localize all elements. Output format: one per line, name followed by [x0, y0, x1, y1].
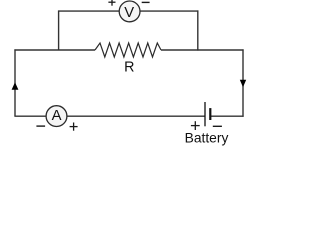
battery B1 negative plate (short thick) [209, 108, 211, 120]
voltmeter V1 circle [119, 1, 140, 22]
svg-text:V: V [124, 5, 134, 21]
ammeter plus polarity mark [70, 123, 78, 131]
resistor R zigzag [95, 43, 161, 57]
current direction arrow up (left side) [12, 82, 19, 90]
ammeter A1 circle [46, 106, 67, 127]
wire resistor row left segment [14, 49, 95, 51]
wire top-left horizontal (voltmeter branch) [59, 10, 120, 12]
svg-text:Battery: Battery [185, 130, 229, 145]
wire left outer vertical [14, 49, 16, 116]
voltmeter plus polarity mark [108, 0, 115, 6]
wire bottom-left segment [14, 115, 46, 117]
wire bottom-middle segment (ammeter to battery) [67, 115, 205, 117]
battery plus polarity mark [191, 121, 200, 130]
wire voltmeter branch left vertical [58, 10, 60, 50]
svg-text:R: R [124, 60, 134, 76]
battery B1 positive plate (long) [204, 102, 206, 126]
battery minus polarity mark [213, 125, 222, 127]
wire voltmeter branch right vertical [197, 10, 199, 50]
wire right outer vertical [242, 49, 244, 116]
current direction arrow down (right side) [240, 80, 246, 88]
ammeter minus polarity mark [36, 125, 45, 127]
wire resistor row right segment [161, 49, 244, 51]
wire bottom-right segment (battery to right vertical) [210, 115, 243, 117]
wire top-right horizontal (voltmeter branch) [140, 10, 198, 12]
voltmeter minus polarity mark [142, 1, 150, 3]
svg-text:A: A [52, 108, 62, 124]
